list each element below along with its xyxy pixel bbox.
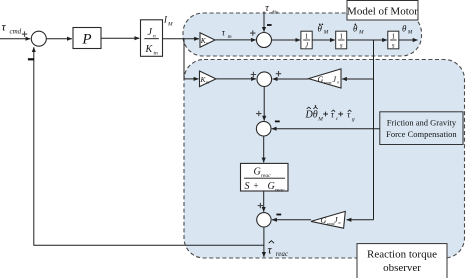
wire: feedback from tau_reac to S1 <box>34 47 264 245</box>
label: plus sign right of S3 <box>276 71 281 76</box>
wire: theta-dot into gain Greac*J (upper) <box>342 78 374 80</box>
wire: Ktn output to summing node S3 <box>216 78 256 80</box>
wire: S1 to controller P <box>46 38 72 40</box>
summing node S1 <box>31 31 46 46</box>
wire: S3 down to summing node S4 <box>263 87 265 121</box>
label box: Reaction torque observer <box>357 244 447 278</box>
svg-text:dis: dis <box>272 10 278 16</box>
svg-text:G: G <box>321 216 327 225</box>
wire: branch of I_M down to observer row <box>183 39 185 79</box>
svg-text:cmd: cmd <box>10 28 22 36</box>
svg-text:m: m <box>228 34 232 40</box>
label: minus sign above S2 <box>267 24 272 26</box>
svg-text:τ: τ <box>265 3 269 14</box>
svg-text:M: M <box>407 30 413 36</box>
svg-text:G: G <box>268 181 275 192</box>
label: tau-hat_reac output <box>268 241 289 258</box>
label: theta_M output <box>402 24 413 36</box>
svg-text:J: J <box>148 27 153 38</box>
svg-text:reac: reac <box>324 80 332 85</box>
shaded region: Reaction torque observer <box>184 60 465 259</box>
summing node S4 <box>256 121 271 136</box>
wire: Kt output tau_m to summing node S2 <box>215 39 256 41</box>
wire: S2 to 1/J block <box>272 39 301 41</box>
svg-text:Force Compensation: Force Compensation <box>386 129 457 139</box>
svg-text:J: J <box>333 75 337 84</box>
wire: friction compensation output into S4 <box>272 128 380 130</box>
label: plus sign above S5 <box>258 203 263 208</box>
wire: upper Greac*J output to summing node S3 <box>273 78 309 80</box>
svg-text:θ: θ <box>313 110 318 121</box>
label box: Model of Motor <box>347 1 418 21</box>
label: tau_cmd <box>2 20 22 36</box>
svg-text:J: J <box>334 215 338 224</box>
wire: 1/J to first integrator 1/s <box>312 39 335 41</box>
svg-text:1: 1 <box>339 33 343 41</box>
label: plus sign left of S3 <box>251 72 256 77</box>
label: I_M <box>163 15 173 28</box>
block 1/J <box>301 31 312 49</box>
block: Friction and Gravity Force Compensation <box>380 112 463 145</box>
gain Ktn (triangle) <box>200 71 217 87</box>
svg-text:M: M <box>358 30 364 36</box>
label: plus sign at S1 <box>22 31 27 36</box>
svg-text:M: M <box>167 22 173 28</box>
label: theta-dot M <box>353 24 364 36</box>
svg-text:K: K <box>145 44 154 55</box>
wire: theta-dot into gain Greac*Jn (lower) <box>347 219 374 221</box>
svg-text:τ: τ <box>2 20 7 34</box>
label: tau_dis <box>265 3 278 16</box>
summing node S3 <box>257 72 272 87</box>
wire: S4 down to low-pass filter block <box>263 136 265 163</box>
svg-text:M: M <box>323 30 329 36</box>
gain Greac*Jn lower (triangle pointing left) <box>311 211 345 228</box>
svg-text:1: 1 <box>305 33 309 41</box>
wire: lower Greac*Jn output into S5 <box>272 219 311 221</box>
svg-text:observer: observer <box>383 262 421 274</box>
shaded region: Model of Motor <box>183 13 422 56</box>
svg-text:θ: θ <box>402 24 407 34</box>
svg-text:+: + <box>254 181 259 191</box>
gain Greac*J upper (triangle pointing left) <box>309 69 342 88</box>
svg-text:g: g <box>352 117 355 123</box>
wire: theta-dot node vertical line down through observer <box>373 40 375 220</box>
label: theta-double-dot M <box>318 24 329 36</box>
integrator block 1/s (first) <box>336 31 347 49</box>
low-pass filter block Greac/(S+Greac) <box>241 163 289 191</box>
wire: P to Jn/Ktn block <box>101 37 139 39</box>
wire: branch into gain Ktn <box>184 78 199 80</box>
svg-text:P: P <box>81 32 91 48</box>
wire: second integrator output theta_M <box>399 39 418 41</box>
wire: tau_dis disturbance input into S2 <box>263 12 265 32</box>
label: plus sign left of S2 <box>250 30 255 35</box>
svg-text:reac: reac <box>275 188 285 194</box>
integrator block 1/s (second) <box>388 31 399 49</box>
svg-text:reac: reac <box>276 250 289 258</box>
svg-text:n: n <box>337 80 339 85</box>
wire: first integrator to second integrator (theta-dot node) <box>347 39 387 41</box>
svg-text:θ: θ <box>318 24 323 34</box>
block Jn/Ktn <box>141 20 163 57</box>
svg-text:S: S <box>245 181 250 192</box>
wire: Jn/Ktn block to gain Kt (current I_M) <box>163 38 199 40</box>
wire: tau_cmd input into summing node S1 <box>0 38 30 40</box>
controller block P <box>73 28 101 49</box>
wire: S5 output tau_reac down to region edge <box>263 227 265 257</box>
svg-text:G: G <box>318 75 324 84</box>
svg-text:G: G <box>254 167 261 178</box>
svg-text:θ: θ <box>353 24 358 34</box>
summing node S5 <box>257 213 271 227</box>
svg-text:n: n <box>339 220 341 225</box>
label: minus sign right of S4 <box>275 121 280 123</box>
svg-text:s: s <box>392 41 395 49</box>
label: tau_m <box>222 28 232 40</box>
svg-text:1: 1 <box>392 33 396 41</box>
wire: filter output down to summing node S5 <box>263 191 265 212</box>
label: minus sign right of S5 <box>276 214 281 216</box>
label: plus sign above-left of S4 <box>256 111 261 116</box>
label: D-hat theta-hat-dot_M + tau-hat_c + tau-hat_g <box>305 105 355 123</box>
svg-text:τ: τ <box>268 243 273 257</box>
label: minus sign below S1 <box>28 58 34 60</box>
svg-text:Model of Motor: Model of Motor <box>347 6 418 18</box>
svg-text:tn: tn <box>154 51 159 57</box>
gain Kt (triangle) <box>200 33 215 48</box>
svg-text:Friction and Gravity: Friction and Gravity <box>387 118 457 128</box>
svg-text:M: M <box>317 117 323 123</box>
summing node S2 <box>257 33 272 48</box>
svg-text:Reaction torque: Reaction torque <box>367 249 437 261</box>
svg-text:s: s <box>340 41 343 49</box>
